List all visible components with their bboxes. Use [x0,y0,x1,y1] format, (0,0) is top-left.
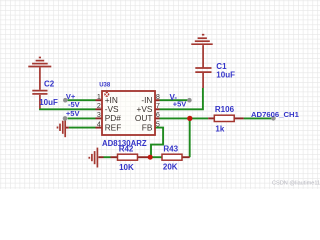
svg-text:R43: R43 [163,145,178,154]
svg-text:5: 5 [156,119,160,128]
svg-text:1: 1 [97,92,101,101]
svg-text:7: 7 [156,101,160,110]
svg-text:R42: R42 [119,144,134,153]
svg-text:REF: REF [105,122,122,132]
svg-text:+5V: +5V [173,100,187,109]
svg-text:FB: FB [142,122,153,132]
svg-text:10uF: 10uF [216,70,235,79]
svg-text:10K: 10K [119,163,134,172]
svg-text:U38: U38 [99,82,111,88]
svg-text:CSDN @liautime111: CSDN @liautime111 [272,181,320,187]
svg-text:20K: 20K [163,163,178,172]
svg-text:AD7606_CH1: AD7606_CH1 [251,110,300,119]
svg-text:-5V: -5V [68,100,80,109]
svg-text:4: 4 [97,119,101,128]
svg-text:C2: C2 [44,80,55,89]
svg-text:10uF: 10uF [39,98,58,107]
svg-text:+5V: +5V [66,109,80,118]
svg-text:6: 6 [156,110,160,119]
svg-text:2: 2 [97,101,101,110]
svg-text:3: 3 [97,110,101,119]
svg-text:1k: 1k [215,125,224,134]
svg-text:8: 8 [156,92,160,101]
svg-text:R106: R106 [215,105,235,114]
